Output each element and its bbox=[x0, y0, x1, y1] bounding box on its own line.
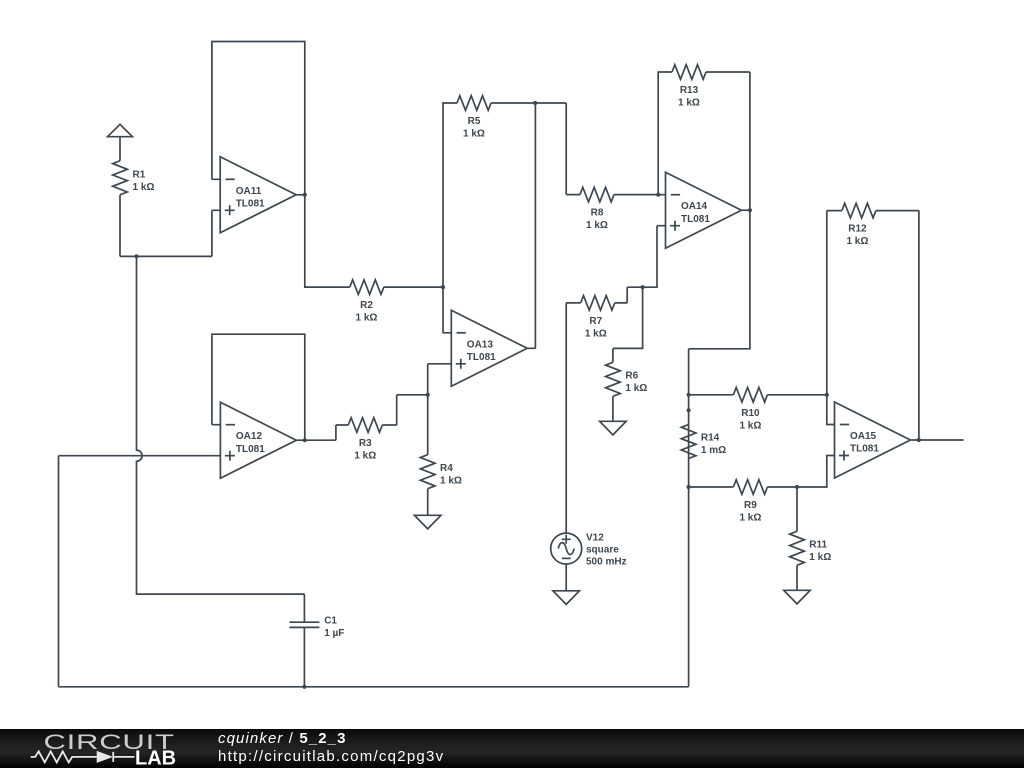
footer title text bbox=[218, 730, 347, 747]
wire OA14 plus feed bbox=[643, 226, 657, 288]
node R14 top junction bbox=[687, 408, 691, 412]
wire OA12 plus with hop bbox=[59, 456, 212, 687]
svg-text:TL081: TL081 bbox=[467, 352, 496, 363]
node OA11 output bbox=[303, 193, 307, 197]
svg-text:TL081: TL081 bbox=[236, 198, 265, 209]
ground under V12 bbox=[553, 591, 579, 605]
wire up to R5 row bbox=[443, 103, 457, 287]
svg-text:R2: R2 bbox=[360, 300, 373, 311]
svg-text:R4: R4 bbox=[440, 463, 453, 474]
svg-text:1 kΩ: 1 kΩ bbox=[356, 313, 378, 324]
node R10/R12/OA15 junction bbox=[825, 393, 829, 397]
wire OA13 minus feed bbox=[442, 287, 444, 333]
node R9/R11 junction bbox=[795, 485, 799, 489]
ground under R6 bbox=[600, 421, 626, 435]
svg-text:TL081: TL081 bbox=[236, 444, 265, 455]
svg-text:R13: R13 bbox=[680, 85, 699, 96]
node OA14 plus junction bbox=[641, 285, 645, 289]
ground under R11 bbox=[784, 590, 810, 604]
svg-text:R7: R7 bbox=[589, 316, 602, 327]
CircuitLab logo bbox=[0, 729, 200, 768]
wire R1 to OA11 plus bbox=[120, 210, 212, 256]
svg-text:1 kΩ: 1 kΩ bbox=[846, 236, 868, 247]
wire OA13 output up to R5 bbox=[534, 103, 536, 348]
node OA12 output bbox=[303, 438, 307, 442]
svg-text:R11: R11 bbox=[809, 540, 827, 551]
svg-text:1 kΩ: 1 kΩ bbox=[585, 329, 607, 340]
capacitor C1 bbox=[289, 622, 319, 687]
op-amp U OA14 bbox=[657, 172, 750, 248]
svg-text:V12: V12 bbox=[586, 533, 604, 544]
svg-text:OA13: OA13 bbox=[467, 339, 494, 350]
svg-text:R8: R8 bbox=[591, 208, 604, 219]
node R10 left junction bbox=[687, 393, 691, 397]
svg-text:R6: R6 bbox=[625, 371, 638, 382]
svg-text:R1: R1 bbox=[133, 170, 146, 181]
wire bottom rail bbox=[59, 487, 689, 687]
svg-text:1 kΩ: 1 kΩ bbox=[678, 98, 700, 109]
resistor R3 bbox=[348, 418, 382, 433]
op-amp U OA15 bbox=[826, 402, 919, 478]
svg-text:TL081: TL081 bbox=[850, 444, 879, 455]
node OA14 minus junction bbox=[656, 193, 660, 197]
svg-text:1 kΩ: 1 kΩ bbox=[463, 129, 485, 140]
node junction bbox=[134, 254, 138, 258]
svg-text:R14: R14 bbox=[701, 433, 720, 444]
svg-text:1 kΩ: 1 kΩ bbox=[440, 475, 462, 486]
wire OA15 plus feed bbox=[825, 456, 828, 488]
svg-text:C1: C1 bbox=[324, 615, 337, 626]
wire OA14 output to R10 node bbox=[689, 210, 750, 487]
svg-text:OA15: OA15 bbox=[850, 431, 877, 442]
wire OA11 feedback loop bbox=[212, 42, 305, 195]
wire OA12 feedback loop bbox=[212, 334, 305, 440]
resistor R4 bbox=[427, 395, 429, 455]
op-amp U OA11 bbox=[212, 157, 305, 233]
resistor R2 bbox=[350, 280, 384, 295]
wire R5 to R8 bbox=[535, 103, 580, 195]
svg-text:1 kΩ: 1 kΩ bbox=[586, 220, 608, 231]
svg-text:1 kΩ: 1 kΩ bbox=[809, 552, 831, 563]
footer bar bbox=[0, 729, 1024, 768]
ground under R4 bbox=[415, 515, 441, 529]
node R9 left junction bbox=[687, 485, 691, 489]
wire OA12 output to R3 bbox=[305, 425, 349, 440]
node R2/R5/OA13 junction bbox=[441, 285, 445, 289]
resistor R5 bbox=[457, 96, 491, 111]
svg-text:1 kΩ: 1 kΩ bbox=[739, 420, 761, 431]
resistor R10 bbox=[689, 394, 734, 396]
resistor R11 bbox=[796, 487, 798, 531]
svg-text:LAB: LAB bbox=[135, 747, 176, 768]
wire OA15 output bbox=[919, 439, 964, 441]
resistor R13 feedback bbox=[658, 72, 672, 195]
resistor R6 bbox=[613, 287, 643, 362]
node OA15 output bbox=[917, 438, 921, 442]
svg-text:R10: R10 bbox=[741, 408, 760, 419]
svg-text:1 kΩ: 1 kΩ bbox=[354, 451, 376, 462]
supply flag terminal bbox=[108, 124, 133, 136]
node R5 right junction bbox=[533, 101, 537, 105]
svg-text:R9: R9 bbox=[744, 500, 757, 511]
wire center vertical to C1 bbox=[137, 256, 305, 622]
svg-text:1 µF: 1 µF bbox=[324, 628, 344, 639]
svg-text:500 mHz: 500 mHz bbox=[586, 557, 627, 568]
resistor R14 bbox=[681, 425, 696, 459]
op-amp U OA12 bbox=[212, 402, 305, 478]
svg-text:TL081: TL081 bbox=[681, 214, 710, 225]
node C1 bottom junction bbox=[302, 685, 306, 689]
svg-text:R3: R3 bbox=[359, 438, 372, 449]
svg-text:1 kΩ: 1 kΩ bbox=[739, 513, 761, 524]
wire V12 to ground bbox=[565, 564, 567, 591]
wire OA11 output down bbox=[305, 195, 350, 287]
node OA14 output bbox=[748, 208, 752, 212]
node R3/R4/OA13 junction bbox=[426, 393, 430, 397]
resistor R1 bbox=[119, 137, 121, 161]
svg-text:OA14: OA14 bbox=[681, 201, 708, 212]
svg-text:1 mΩ: 1 mΩ bbox=[701, 445, 726, 456]
wire OA13 plus feed bbox=[428, 364, 443, 395]
resistor R9 bbox=[689, 486, 734, 488]
resistor R7 bbox=[615, 287, 643, 303]
voltage source V12 bbox=[551, 533, 582, 564]
svg-text:square: square bbox=[586, 545, 619, 556]
svg-text:OA12: OA12 bbox=[236, 431, 263, 442]
svg-text:OA11: OA11 bbox=[236, 186, 262, 197]
resistor R12 feedback bbox=[827, 211, 842, 395]
resistor R8 bbox=[580, 187, 614, 202]
wire OA15 minus feed bbox=[825, 395, 828, 425]
op-amp U OA13 bbox=[443, 310, 536, 386]
svg-text:1 kΩ: 1 kΩ bbox=[133, 182, 155, 193]
svg-text:1 kΩ: 1 kΩ bbox=[625, 383, 647, 394]
svg-text:R5: R5 bbox=[468, 116, 481, 127]
svg-text:R12: R12 bbox=[848, 224, 867, 235]
